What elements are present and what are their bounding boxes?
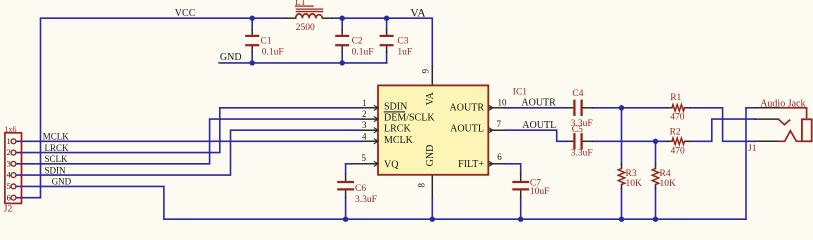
- svg-text:1x6: 1x6: [5, 125, 17, 134]
- svg-text:2500: 2500: [296, 23, 315, 33]
- svg-text:AOUTR: AOUTR: [521, 98, 556, 109]
- svg-text:VCC: VCC: [175, 8, 196, 19]
- svg-text:8: 8: [416, 182, 426, 187]
- svg-text:5: 5: [7, 181, 11, 191]
- svg-text:GND: GND: [425, 145, 436, 167]
- svg-text:VA: VA: [425, 91, 436, 105]
- svg-text:VQ: VQ: [384, 159, 399, 170]
- svg-text:GND: GND: [220, 52, 242, 63]
- svg-text:3.3uF: 3.3uF: [571, 149, 593, 159]
- svg-text:2: 2: [7, 147, 11, 157]
- svg-text:470: 470: [671, 147, 686, 157]
- svg-text:0.1uF: 0.1uF: [262, 48, 284, 58]
- svg-text:AOUTL: AOUTL: [522, 120, 556, 131]
- svg-text:LRCK: LRCK: [384, 124, 411, 135]
- svg-text:10: 10: [498, 97, 508, 107]
- svg-text:C5: C5: [572, 125, 583, 135]
- svg-text:4: 4: [362, 131, 367, 141]
- svg-text:3: 3: [362, 120, 367, 130]
- svg-text:C2: C2: [352, 36, 363, 46]
- svg-text:SDIN: SDIN: [384, 101, 407, 112]
- svg-text:R3: R3: [626, 169, 637, 179]
- svg-text:0.1uF: 0.1uF: [352, 48, 374, 58]
- svg-text:9: 9: [420, 68, 430, 73]
- svg-text:5: 5: [362, 153, 367, 163]
- svg-text:10uF: 10uF: [530, 187, 550, 197]
- svg-text:MCLK: MCLK: [43, 132, 70, 142]
- svg-text:2: 2: [362, 109, 367, 119]
- svg-text:C4: C4: [572, 89, 583, 99]
- svg-text:3: 3: [7, 158, 11, 168]
- svg-text:J1: J1: [748, 144, 757, 154]
- svg-text:MCLK: MCLK: [384, 135, 414, 146]
- svg-text:10K: 10K: [626, 179, 643, 189]
- svg-text:VA: VA: [410, 8, 426, 20]
- svg-text:6: 6: [497, 152, 502, 162]
- svg-text:FILT+: FILT+: [458, 159, 484, 170]
- svg-text:7: 7: [497, 119, 502, 129]
- svg-text:4: 4: [7, 170, 12, 180]
- svg-text:SCLK: SCLK: [45, 154, 69, 164]
- svg-text:C1: C1: [261, 36, 272, 46]
- svg-text:SDIN: SDIN: [45, 165, 67, 175]
- svg-text:R4: R4: [660, 169, 671, 179]
- svg-text:DEM/SCLK: DEM/SCLK: [384, 113, 435, 124]
- svg-text:6: 6: [7, 192, 11, 202]
- svg-text:3.3uF: 3.3uF: [355, 195, 377, 205]
- svg-text:1: 1: [362, 98, 367, 108]
- svg-text:R1: R1: [670, 93, 681, 103]
- svg-text:AOUTL: AOUTL: [450, 124, 484, 135]
- svg-text:C3: C3: [397, 36, 408, 46]
- svg-text:R2: R2: [670, 127, 681, 137]
- svg-text:AOUTR: AOUTR: [450, 102, 485, 113]
- svg-text:470: 470: [670, 113, 685, 123]
- svg-text:GND: GND: [52, 177, 72, 187]
- svg-text:10K: 10K: [660, 179, 677, 189]
- svg-text:IC1: IC1: [513, 87, 528, 97]
- svg-text:Audio Jack: Audio Jack: [760, 98, 805, 109]
- svg-text:J2: J2: [4, 204, 13, 214]
- svg-text:C6: C6: [355, 184, 366, 194]
- svg-text:L1: L1: [295, 0, 306, 8]
- svg-text:1uF: 1uF: [397, 48, 412, 58]
- svg-text:1: 1: [7, 136, 11, 146]
- svg-text:LRCK: LRCK: [45, 143, 70, 153]
